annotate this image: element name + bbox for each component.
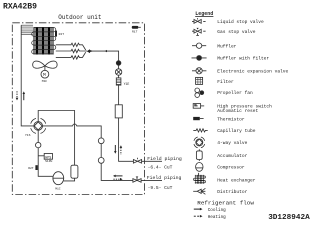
svg-text:Muffler with filter: Muffler with filter (217, 56, 269, 62)
capillary tube 2 (56, 49, 87, 52)
flow arrow heating (dashed down) on left pipe (16, 91, 19, 100)
wire (118, 65, 120, 69)
svg-text:Y1E: Y1E (124, 82, 130, 86)
svg-text:R4T: R4T (59, 33, 65, 36)
svg-text:Capillary tube: Capillary tube (217, 128, 255, 134)
fan motor M1F (44, 67, 46, 71)
svg-text:R1T: R1T (132, 31, 138, 34)
heat exchanger serpentine rows (32, 28, 56, 54)
accumulator (71, 165, 78, 178)
svg-text:M1F: M1F (42, 80, 48, 83)
flow arrow heating (left) on liquid header (105, 50, 107, 52)
svg-text:Compressor: Compressor (217, 165, 245, 171)
svg-text:Y1S: Y1S (25, 134, 31, 137)
svg-text:Automatic reset: Automatic reset (217, 108, 258, 114)
svg-text:Filter: Filter (217, 79, 234, 85)
wire (100, 144, 102, 158)
wire: down to gas line (101, 163, 133, 180)
muffler rectangle on liquid line (115, 105, 122, 118)
flow arrow cooling (down) on liquid line (114, 145, 117, 154)
svg-text:Propeller fan: Propeller fan (217, 90, 253, 96)
heat exchanger left U-bends (32, 32, 34, 54)
svg-text:S1PH: S1PH (45, 160, 52, 163)
filter (liquid line) (116, 78, 121, 85)
svg-text:Accumulator: Accumulator (217, 153, 247, 159)
svg-text:Muffler: Muffler (217, 44, 236, 50)
legend liquid stop valve (192, 18, 206, 23)
wire: distributor to liquid column (90, 51, 119, 61)
svg-text:Cooling: Cooling (208, 208, 226, 213)
thermistor R2T on discharge pipe (28, 165, 38, 170)
legend high pressure switch (193, 104, 204, 109)
svg-text:Thermistor: Thermistor (217, 116, 245, 122)
svg-text:4-way valve: 4-way valve (217, 140, 247, 146)
muffler (discharge line) (36, 142, 41, 147)
flow arrow heating (dashed right) on gas line (113, 178, 122, 181)
svg-text:R2T: R2T (28, 167, 34, 170)
compressor M1C (53, 172, 64, 185)
muffler (lower) (98, 158, 104, 164)
liquid stop valve (133, 158, 141, 163)
wire (118, 75, 120, 78)
outdoor unit boundary (dash-dot box) (12, 23, 144, 195)
wire: accumulator bottom to compressor (64, 178, 75, 181)
svg-text:Heating: Heating (208, 215, 226, 220)
legend thermistor (193, 117, 203, 120)
cooling flow arrow (194, 208, 203, 211)
wire: field piping gas (141, 179, 162, 181)
svg-text:Heat exchanger: Heat exchanger (217, 178, 255, 184)
wire: coil header down to 4-way valve left port (21, 25, 34, 126)
flow arrow cooling (left) on gas line (113, 175, 123, 178)
propeller fan blades (33, 61, 45, 68)
heat exchanger right U-bends (54, 28, 56, 50)
legend muffler with filter (192, 56, 207, 61)
capillary tube 3 (56, 52, 86, 59)
flow arrow cooling (right) on liquid header (90, 50, 92, 52)
wire: field piping liquid (142, 160, 162, 162)
heating flow arrow (194, 215, 203, 218)
legend electronic expansion valve (192, 68, 206, 74)
flow arrow cooling (up) on left pipe (23, 91, 26, 100)
svg-text:3D128942A: 3D128942A (268, 214, 310, 222)
thermistor R4T on coil (55, 31, 64, 37)
wire (118, 85, 120, 105)
legend distributor (193, 188, 205, 194)
flow arrow heating (dashed up) on liquid line (120, 145, 123, 155)
legend 4-way valve (194, 137, 205, 148)
legend muffler (192, 43, 206, 48)
muffler with filter (liquid line) (116, 61, 121, 66)
high pressure switch S1PH (38, 154, 52, 161)
legend compressor (196, 163, 203, 172)
wire: 4-way valve top to accumulator (38, 111, 74, 166)
4-way valve Y1S (31, 118, 46, 133)
electronic expansion valve Y1E (115, 69, 121, 75)
svg-text:M1C: M1C (55, 187, 61, 190)
heat exchanger coil fins (34, 27, 53, 55)
svg-text:-6.4- CuT: -6.4- CuT (148, 164, 173, 170)
wire: 4-way valve right to muffler column (with hop) (43, 124, 102, 138)
thermistor R1T (outdoor air) (132, 26, 141, 34)
capillary tube 1 (56, 43, 86, 50)
legend filter (196, 77, 203, 84)
svg-text:Field piping: Field piping (147, 156, 182, 162)
legend gas stop valve (192, 28, 206, 36)
distributor (87, 49, 90, 53)
svg-text:Outdoor unit: Outdoor unit (58, 14, 101, 21)
svg-text:-9.5- CuT: -9.5- CuT (148, 185, 173, 191)
legend heat exchanger (194, 173, 206, 184)
svg-text:RXA42B9: RXA42B9 (3, 3, 37, 12)
svg-text:Gas stop valve: Gas stop valve (217, 29, 255, 35)
heat exchanger header comb (21, 25, 33, 35)
wire: 4-way valve bottom to compressor (38, 130, 53, 176)
legend accumulator (196, 149, 202, 161)
muffler (upper) (98, 138, 104, 144)
svg-text:Refrigerant flow: Refrigerant flow (197, 199, 254, 206)
gas stop valve (133, 177, 141, 183)
wire liquid line down to stop valve (119, 118, 134, 161)
legend propeller fan (195, 88, 204, 97)
svg-text:Distributor: Distributor (217, 189, 247, 195)
svg-text:Electronic expansion valve: Electronic expansion valve (217, 69, 288, 75)
svg-text:M: M (43, 72, 46, 78)
svg-text:Field piping: Field piping (147, 175, 182, 181)
legend capillary tube (193, 129, 207, 132)
svg-text:Liquid stop valve: Liquid stop valve (217, 19, 264, 25)
